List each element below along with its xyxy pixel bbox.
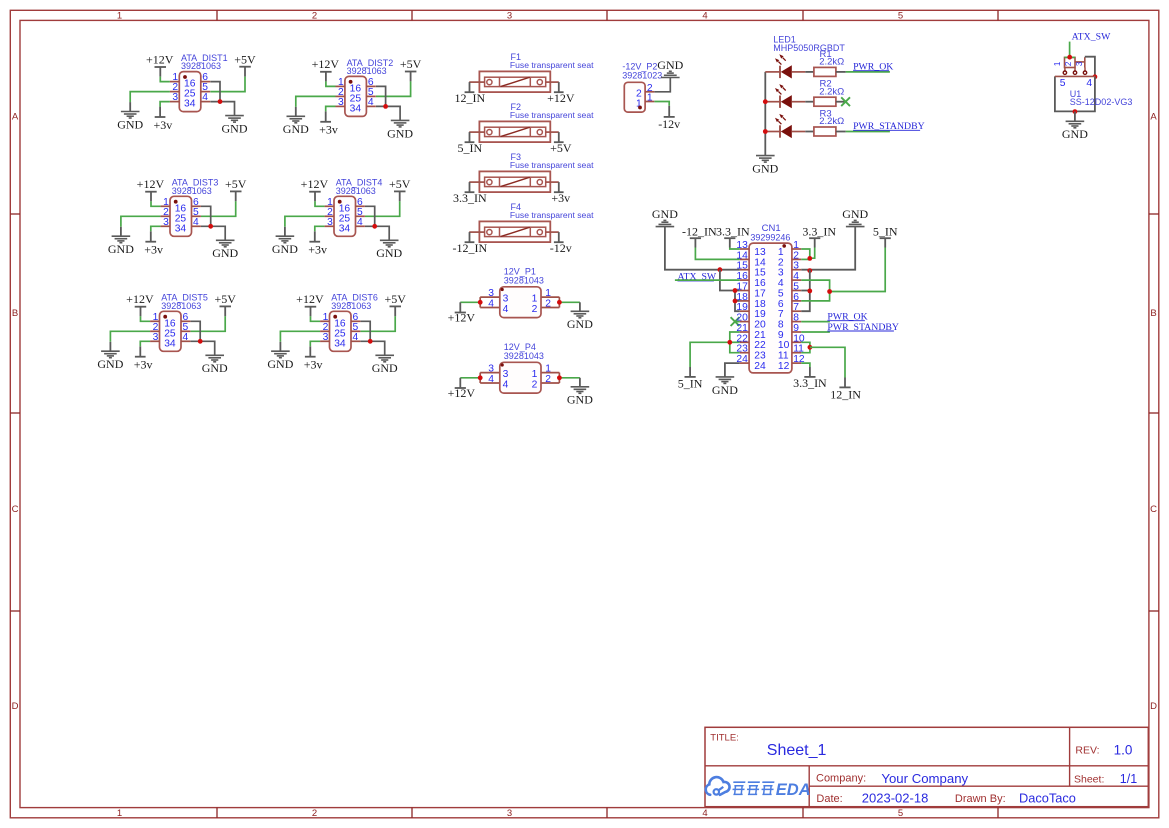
svg-text:34: 34 xyxy=(184,99,196,110)
svg-text:12_IN: 12_IN xyxy=(454,91,485,105)
svg-text:39281043: 39281043 xyxy=(504,351,544,361)
wire 3.3_IN to pin1/pin2 junction xyxy=(810,248,815,259)
ground left of ATA_DIST1 xyxy=(117,112,143,132)
svg-text:+12V: +12V xyxy=(296,292,324,306)
port 5_IN below CN1 pin22 wire xyxy=(678,367,703,391)
ground left of ATA_DIST3 xyxy=(108,236,134,256)
svg-text:5: 5 xyxy=(898,11,903,22)
svg-text:2: 2 xyxy=(312,11,317,22)
junction pin4/pin6 of ATA_DIST5 xyxy=(198,339,203,344)
svg-text:ATX_SW: ATX_SW xyxy=(1072,32,1111,43)
svg-text:B: B xyxy=(1150,308,1156,319)
wire pin6 to pin4 of ATA_DIST6 xyxy=(361,321,371,341)
net label PWR_STANDBY xyxy=(853,121,925,132)
wire R1 output xyxy=(836,71,846,73)
connector 12V_P1 39281043 body xyxy=(488,287,551,318)
svg-text:SS-12D02-VG3: SS-12D02-VG3 xyxy=(1070,97,1133,107)
wire pin2 of ATA_DIST1 to GND xyxy=(130,92,170,103)
svg-text:+5V: +5V xyxy=(400,57,422,71)
svg-text:4: 4 xyxy=(357,217,363,228)
svg-text:1: 1 xyxy=(778,247,784,258)
title block dividers xyxy=(705,727,1148,806)
svg-text:22: 22 xyxy=(754,340,766,351)
wire LED1 common cathode bus to GND xyxy=(764,72,766,156)
power flag +12V for ATA_DIST3 xyxy=(137,177,165,201)
port 3.3_IN above CN1 pins 1/2 xyxy=(802,224,836,247)
junction pins 21/22/23 xyxy=(727,340,732,345)
svg-text:3: 3 xyxy=(503,369,509,380)
junction LED bus row3 xyxy=(763,129,768,134)
power flag +5V for ATA_DIST5 xyxy=(214,292,236,316)
svg-text:Sheet:: Sheet: xyxy=(1074,774,1104,786)
svg-text:15: 15 xyxy=(754,268,766,279)
svg-text:D: D xyxy=(1150,701,1157,712)
svg-text:Fuse transparent seat: Fuse transparent seat xyxy=(510,160,594,170)
svg-text:GND: GND xyxy=(372,361,398,375)
svg-text:7: 7 xyxy=(778,309,784,320)
svg-text:4: 4 xyxy=(202,92,208,103)
wire CN1 pin15 to GND xyxy=(665,227,740,270)
svg-text:3: 3 xyxy=(323,332,329,343)
port GND right of 12V_P4 xyxy=(579,378,581,387)
junction pin4/pin6 of ATA_DIST6 xyxy=(368,339,373,344)
svg-text:3: 3 xyxy=(778,268,784,279)
wire pins10/11 to 12_IN xyxy=(810,347,845,377)
wire +12V to pin1 of ATA_DIST3 xyxy=(151,201,161,206)
svg-text:16: 16 xyxy=(754,278,766,289)
svg-text:GND: GND xyxy=(283,122,309,136)
power flag +3v for ATA_DIST4 xyxy=(308,231,327,256)
frame row ticks left/right xyxy=(10,213,20,215)
svg-text:Drawn By:: Drawn By: xyxy=(955,793,1006,805)
frame column ticks top/bottom xyxy=(216,10,218,20)
svg-text:34: 34 xyxy=(175,223,187,234)
connector 12V_P4 39281043 body xyxy=(488,362,551,393)
svg-text:1: 1 xyxy=(532,293,538,304)
wire +5V to pin5 of ATA_DIST6 xyxy=(361,316,396,331)
switch pin numbers 1 2 3 (rotated) xyxy=(1053,61,1084,66)
svg-text:2: 2 xyxy=(312,808,317,819)
svg-text:GND: GND xyxy=(842,207,868,221)
svg-text:2: 2 xyxy=(532,304,538,315)
svg-text:3: 3 xyxy=(172,92,178,103)
wire pin4 of ATA_DIST6 to GND xyxy=(361,341,385,355)
port +5V at fuse F2 output xyxy=(550,132,572,155)
svg-text:Company:: Company: xyxy=(816,773,866,785)
wire pin2 of ATA_DIST3 to GND xyxy=(121,216,161,227)
port GND right of 12V_P1 xyxy=(579,302,581,311)
svg-text:EDA: EDA xyxy=(776,781,811,799)
svg-text:1/1: 1/1 xyxy=(1120,772,1137,786)
junction pin4/pin6 of ATA_DIST1 xyxy=(218,99,223,104)
resistor R2 2.2kΩ xyxy=(814,79,844,107)
connector ATA_DIST5 39281063 body xyxy=(150,311,190,351)
junction pin15 wire xyxy=(718,267,723,272)
svg-text:GND: GND xyxy=(222,122,248,136)
svg-text:4: 4 xyxy=(702,11,707,22)
svg-text:+12V: +12V xyxy=(301,177,329,191)
svg-text:GND: GND xyxy=(267,357,293,371)
wire CN1 pin9 PWR_STANDBY xyxy=(801,331,830,333)
svg-text:Your Company: Your Company xyxy=(881,771,968,786)
wire CN1 pin2 xyxy=(801,258,810,260)
connector ATA_DIST6 39281063 body xyxy=(320,311,360,351)
wire pin3 to pin7 xyxy=(801,270,810,312)
ground below U1 xyxy=(1062,121,1088,141)
wire pin4 of ATA_DIST4 to GND xyxy=(365,226,389,240)
svg-text:39281063: 39281063 xyxy=(336,186,376,196)
wire +3v to pin3 of ATA_DIST5 xyxy=(140,341,150,346)
port 12_IN below right of CN1 xyxy=(830,378,861,402)
power flag +3v for ATA_DIST2 xyxy=(319,111,338,136)
wire CN1 pin3 to GND xyxy=(801,227,855,270)
svg-text:C: C xyxy=(1150,504,1157,515)
wire pin2 of ATA_DIST6 to GND xyxy=(280,331,320,342)
svg-text:GND: GND xyxy=(1062,127,1088,141)
svg-text:+12V: +12V xyxy=(448,386,476,400)
svg-text:GND: GND xyxy=(272,242,298,256)
svg-text:12: 12 xyxy=(778,361,790,372)
wire CN1 pin22 to 5_IN xyxy=(730,341,740,343)
svg-text:3: 3 xyxy=(327,217,333,228)
svg-text:20: 20 xyxy=(736,313,748,324)
svg-text:1: 1 xyxy=(647,93,653,104)
wire net PWR_STANDBY xyxy=(846,131,890,133)
wire R3 output xyxy=(836,131,846,133)
svg-text:16: 16 xyxy=(736,271,748,282)
svg-text:5_IN: 5_IN xyxy=(873,224,898,238)
power flag +12V for ATA_DIST5 xyxy=(126,292,154,316)
wire 12V_P1 pins 1/2 to GND xyxy=(541,297,580,307)
svg-text:8: 8 xyxy=(778,320,784,331)
junction pin4/pin6 of ATA_DIST3 xyxy=(208,224,213,229)
svg-text:1: 1 xyxy=(532,369,538,380)
svg-text:GND: GND xyxy=(108,242,134,256)
svg-text:+3v: +3v xyxy=(304,358,323,372)
wire +5V to pin5 of ATA_DIST5 xyxy=(191,316,226,331)
svg-text:34: 34 xyxy=(164,338,176,349)
svg-text:DacoTaco: DacoTaco xyxy=(1019,791,1076,806)
wire CN1 pin5 xyxy=(801,290,810,292)
svg-text:2.2kΩ: 2.2kΩ xyxy=(819,86,844,97)
junction 12V_P1 left xyxy=(478,300,483,305)
svg-text:19: 19 xyxy=(736,302,748,313)
svg-text:3: 3 xyxy=(488,288,494,299)
ground left of ATA_DIST5 xyxy=(97,351,123,371)
svg-text:1: 1 xyxy=(117,11,122,22)
wire LED3 anode to R3 xyxy=(805,131,814,133)
svg-text:13: 13 xyxy=(754,247,766,258)
svg-text:22: 22 xyxy=(736,333,748,344)
svg-text:8: 8 xyxy=(793,313,799,324)
svg-text:34: 34 xyxy=(334,338,346,349)
svg-text:4: 4 xyxy=(503,304,509,315)
svg-text:GND: GND xyxy=(657,58,683,72)
wire CN1 pin8 PWR_OK xyxy=(801,321,830,323)
wire CN1 pin23 xyxy=(730,342,740,352)
svg-text:1.0: 1.0 xyxy=(1114,743,1133,758)
power flag +5V for ATA_DIST4 xyxy=(389,177,411,201)
wire ATX_SW to switch xyxy=(1069,42,1071,57)
svg-text:TITLE:: TITLE: xyxy=(710,732,739,743)
svg-text:+3v: +3v xyxy=(319,123,338,137)
wire pin2 of ATA_DIST2 to GND xyxy=(296,96,336,107)
svg-text:4: 4 xyxy=(183,332,189,343)
svg-text:4: 4 xyxy=(488,374,494,385)
svg-text:2.2kΩ: 2.2kΩ xyxy=(819,57,844,68)
wire CN1 pin24 to GND xyxy=(725,363,740,377)
ground top-left of CN1 xyxy=(652,207,678,227)
ground below CN1 pin24 xyxy=(712,377,738,397)
svg-text:4: 4 xyxy=(488,299,494,310)
ground right of 12V_P1 xyxy=(567,311,593,331)
wire 12V_P4 pins 1/2 to GND xyxy=(541,373,580,383)
svg-text:+12V: +12V xyxy=(448,311,476,325)
svg-text:Date:: Date: xyxy=(816,793,842,805)
junction at U1 pin 4 xyxy=(1093,74,1098,79)
port 3.3_IN above CN1 pin 13 xyxy=(716,224,750,247)
svg-text:+3v: +3v xyxy=(144,243,163,257)
wire +3v to pin3 of ATA_DIST4 xyxy=(315,226,325,231)
svg-text:2.2kΩ: 2.2kΩ xyxy=(819,116,844,127)
svg-text:1: 1 xyxy=(545,288,551,299)
svg-text:GND: GND xyxy=(712,383,738,397)
svg-text:+12V: +12V xyxy=(146,52,174,66)
title block outline xyxy=(705,727,1148,806)
svg-text:5: 5 xyxy=(1060,78,1066,89)
svg-text:39281023: 39281023 xyxy=(622,70,662,80)
svg-text:+12V: +12V xyxy=(137,177,165,191)
connector ATA_DIST2 39281063 body xyxy=(336,76,376,116)
wire +5V to pin5 of ATA_DIST4 xyxy=(365,201,400,216)
svg-text:4: 4 xyxy=(193,217,199,228)
svg-text:+5V: +5V xyxy=(234,52,256,66)
svg-text:10: 10 xyxy=(793,333,805,344)
svg-text:GND: GND xyxy=(652,207,678,221)
ground right of ATA_DIST2 xyxy=(387,120,413,140)
led LED1 element 3 xyxy=(765,114,805,138)
svg-text:1: 1 xyxy=(793,240,799,251)
junction 12V_P4 left xyxy=(478,375,483,380)
wire +12V to pin1 of ATA_DIST4 xyxy=(315,201,325,206)
port +12V left of 12V_P4 xyxy=(448,378,476,400)
wire +5V to pin5 of ATA_DIST1 xyxy=(210,77,245,92)
wire +5V to pin5 of ATA_DIST2 xyxy=(376,81,411,96)
svg-text:Fuse transparent seat: Fuse transparent seat xyxy=(510,110,594,120)
connector ATA_DIST4 39281063 body xyxy=(325,196,365,236)
svg-text:A: A xyxy=(1150,112,1157,123)
wire U1 to GND xyxy=(1074,112,1076,122)
svg-text:5: 5 xyxy=(793,282,799,293)
wire +12V to pin1 of ATA_DIST2 xyxy=(326,81,336,86)
wire CN1 pin4 to pin6 xyxy=(801,280,829,301)
wire CN1 pin12 to 3.3_IN xyxy=(801,363,810,367)
wire CN1 pin21 xyxy=(730,332,740,342)
junction pins 1/2 xyxy=(807,256,812,261)
wire pin4 of ATA_DIST1 to GND xyxy=(210,102,234,116)
svg-text:39281043: 39281043 xyxy=(504,276,544,286)
ground right of ATA_DIST3 xyxy=(212,240,238,260)
svg-text:39299246: 39299246 xyxy=(750,232,790,242)
svg-text:+12V: +12V xyxy=(126,292,154,306)
svg-text:39281063: 39281063 xyxy=(172,186,212,196)
svg-text:4: 4 xyxy=(1086,78,1092,89)
svg-text:24: 24 xyxy=(754,361,766,372)
svg-text:2: 2 xyxy=(545,374,551,385)
wire +3v to pin3 of ATA_DIST2 xyxy=(326,106,336,111)
svg-text:34: 34 xyxy=(339,223,351,234)
connector CN1 39299246 body xyxy=(736,240,804,373)
switch U1 SS-12D02-VG3 body xyxy=(1055,76,1095,111)
ground left of ATA_DIST2 xyxy=(283,116,309,136)
svg-text:3: 3 xyxy=(793,261,799,272)
svg-text:10: 10 xyxy=(778,340,790,351)
svg-text:3.3_IN: 3.3_IN xyxy=(453,191,487,205)
svg-text:24: 24 xyxy=(736,354,748,365)
junction pin3 xyxy=(807,268,812,273)
power flag +3v for ATA_DIST5 xyxy=(134,346,153,371)
fuse F4 body xyxy=(469,221,559,242)
ground left of ATA_DIST4 xyxy=(272,236,298,256)
wire 5V rail to 5_IN port xyxy=(830,248,886,292)
svg-text:4: 4 xyxy=(353,332,359,343)
wire pin6 to pin4 of ATA_DIST4 xyxy=(365,206,375,226)
svg-text:MHP5050RGBDT: MHP5050RGBDT xyxy=(773,43,845,53)
svg-text:D: D xyxy=(12,701,19,712)
wire 12V_P1 pins 3/4 to +12V xyxy=(460,297,500,307)
wire pin4 of ATA_DIST3 to GND xyxy=(201,226,225,240)
svg-text:+3v: +3v xyxy=(134,358,153,372)
wire LED1 anode to R1 xyxy=(805,71,814,73)
port -12v at fuse F4 output xyxy=(550,232,572,255)
svg-text:3.3_IN: 3.3_IN xyxy=(716,224,750,238)
led LED1 element 1 xyxy=(765,54,805,78)
svg-text:39281063: 39281063 xyxy=(181,61,221,71)
wire stub pin17 xyxy=(735,290,740,292)
svg-text:3: 3 xyxy=(153,332,159,343)
svg-text:1: 1 xyxy=(117,808,122,819)
port +12V left of 12V_P1 xyxy=(448,302,476,324)
junction pin5 xyxy=(807,289,812,294)
junction U1 bottom pin xyxy=(1073,109,1078,114)
wire pin6 to pin4 of ATA_DIST3 xyxy=(201,206,211,226)
ground right of ATA_DIST1 xyxy=(222,116,248,136)
svg-text:12: 12 xyxy=(793,354,805,365)
wire +3v to pin3 of ATA_DIST6 xyxy=(310,341,320,346)
svg-text:11: 11 xyxy=(778,351,789,362)
svg-text:15: 15 xyxy=(736,261,748,272)
wire CN1 pin14 to -12_IN xyxy=(695,248,739,260)
svg-text:19: 19 xyxy=(754,309,766,320)
svg-text:23: 23 xyxy=(736,344,748,355)
svg-text:3: 3 xyxy=(338,97,344,108)
svg-text:7: 7 xyxy=(793,302,799,313)
svg-text:+3v: +3v xyxy=(551,191,570,205)
power flag +12V for ATA_DIST2 xyxy=(312,57,340,81)
svg-text:3.3_IN: 3.3_IN xyxy=(802,224,836,238)
wire R2 output xyxy=(836,101,846,103)
svg-text:20: 20 xyxy=(754,320,766,331)
svg-text:4: 4 xyxy=(793,271,799,282)
wire CN1 pin13 to 3.3_IN xyxy=(730,248,740,250)
power flag +3v for ATA_DIST3 xyxy=(144,231,163,256)
wire CN1 pin16 ATX_SW xyxy=(675,279,740,281)
wire pin4 of ATA_DIST2 to GND xyxy=(376,106,400,120)
svg-text:GND: GND xyxy=(202,361,228,375)
wire pin6 to pin4 of ATA_DIST5 xyxy=(191,321,201,341)
net label PWR_OK at pin8 xyxy=(827,312,867,323)
led LED1 element 2 xyxy=(765,84,805,108)
connector -12V_P2 39281023 body xyxy=(624,82,654,112)
wire CN1 pin1 xyxy=(801,249,810,259)
wire CN1 pin10 xyxy=(801,342,810,347)
port 3.3_IN below CN1 pin12 xyxy=(793,367,827,390)
svg-text:3: 3 xyxy=(507,11,512,22)
svg-text:+5V: +5V xyxy=(550,141,572,155)
svg-text:5: 5 xyxy=(778,288,784,299)
ground right of ATA_DIST6 xyxy=(372,355,398,375)
ground left of ATA_DIST6 xyxy=(267,351,293,371)
svg-text:Fuse transparent seat: Fuse transparent seat xyxy=(510,60,594,70)
no-connect flag on R2 output xyxy=(841,97,850,106)
port -12_IN above CN1 pin 14 xyxy=(682,224,717,247)
svg-text:-12_IN: -12_IN xyxy=(682,224,717,238)
logo JLC EDA cloud icon xyxy=(706,777,730,795)
wire +5V to pin5 of ATA_DIST3 xyxy=(201,201,236,216)
svg-text:+12V: +12V xyxy=(547,91,575,105)
ground right of ATA_DIST5 xyxy=(202,355,228,375)
port -12_IN at fuse F4 input xyxy=(452,232,487,255)
power flag +3v for ATA_DIST1 xyxy=(154,107,173,132)
junction pins4/6 with 5_IN xyxy=(827,289,832,294)
power flag +5V for ATA_DIST6 xyxy=(384,292,406,316)
svg-text:GND: GND xyxy=(752,162,778,176)
svg-text:23: 23 xyxy=(754,351,766,362)
svg-text:39281063: 39281063 xyxy=(331,301,371,311)
svg-text:3: 3 xyxy=(488,364,494,375)
resistor R1 2.2kΩ xyxy=(814,49,844,77)
svg-text:GND: GND xyxy=(567,317,593,331)
svg-text:GND: GND xyxy=(117,117,143,131)
svg-text:2: 2 xyxy=(532,379,538,390)
svg-text:GND: GND xyxy=(376,246,402,260)
port +12V at fuse F1 output xyxy=(547,82,575,105)
svg-text:GND: GND xyxy=(97,357,123,371)
svg-text:39281063: 39281063 xyxy=(347,66,387,76)
port -12v below -12V_P2 xyxy=(658,106,680,131)
svg-text:2: 2 xyxy=(1064,61,1073,66)
svg-text:-12_IN: -12_IN xyxy=(452,241,487,255)
svg-text:2023-02-18: 2023-02-18 xyxy=(862,791,929,806)
svg-text:+12V: +12V xyxy=(312,57,340,71)
logo JLC EDA chinese characters xyxy=(732,782,774,794)
svg-text:Sheet_1: Sheet_1 xyxy=(767,742,827,759)
ground above -12V_P2 xyxy=(657,58,683,78)
net label PWR_STANDBY at pin9 xyxy=(827,322,899,333)
svg-text:5_IN: 5_IN xyxy=(678,377,703,391)
switch SW lever body xyxy=(1063,57,1087,74)
svg-text:Fuse transparent seat: Fuse transparent seat xyxy=(510,210,594,220)
fuse F3 body xyxy=(469,171,559,192)
connector ATA_DIST3 39281063 body xyxy=(161,196,201,236)
wire +3v to pin3 of ATA_DIST3 xyxy=(151,226,161,231)
svg-text:3: 3 xyxy=(507,808,512,819)
svg-text:11: 11 xyxy=(793,344,804,355)
ground right of 12V_P4 xyxy=(567,387,593,407)
junction pin17 xyxy=(733,288,738,293)
power flag +5V for ATA_DIST3 xyxy=(225,177,247,201)
svg-text:REV:: REV: xyxy=(1075,745,1099,757)
